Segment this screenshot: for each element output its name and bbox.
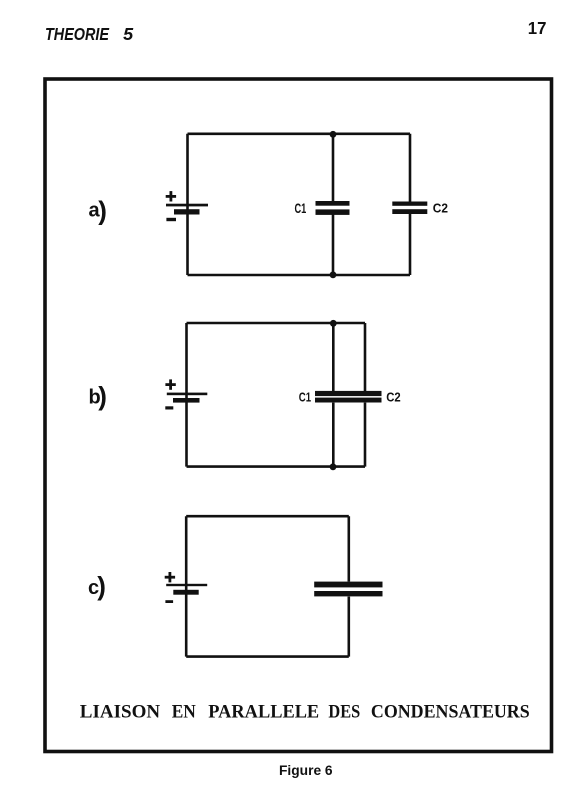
svg-text:): ) (98, 381, 107, 411)
svg-text:EN: EN (172, 702, 196, 723)
svg-text:DES: DES (328, 702, 360, 723)
svg-text:C2: C2 (433, 201, 448, 216)
svg-text:PARALLELE: PARALLELE (208, 702, 319, 723)
svg-text:Figure 6: Figure 6 (279, 763, 333, 778)
svg-text:): ) (97, 571, 106, 601)
svg-text:CONDENSATEURS: CONDENSATEURS (371, 702, 530, 723)
svg-text:C1: C1 (299, 390, 311, 405)
svg-text:C2: C2 (386, 390, 401, 405)
svg-text:LIAISON: LIAISON (80, 702, 161, 723)
svg-text:17: 17 (528, 18, 547, 38)
svg-text:): ) (98, 196, 107, 226)
svg-text:THEORIE: THEORIE (45, 24, 110, 44)
svg-text:5: 5 (123, 24, 134, 44)
svg-text:C1: C1 (295, 200, 307, 216)
